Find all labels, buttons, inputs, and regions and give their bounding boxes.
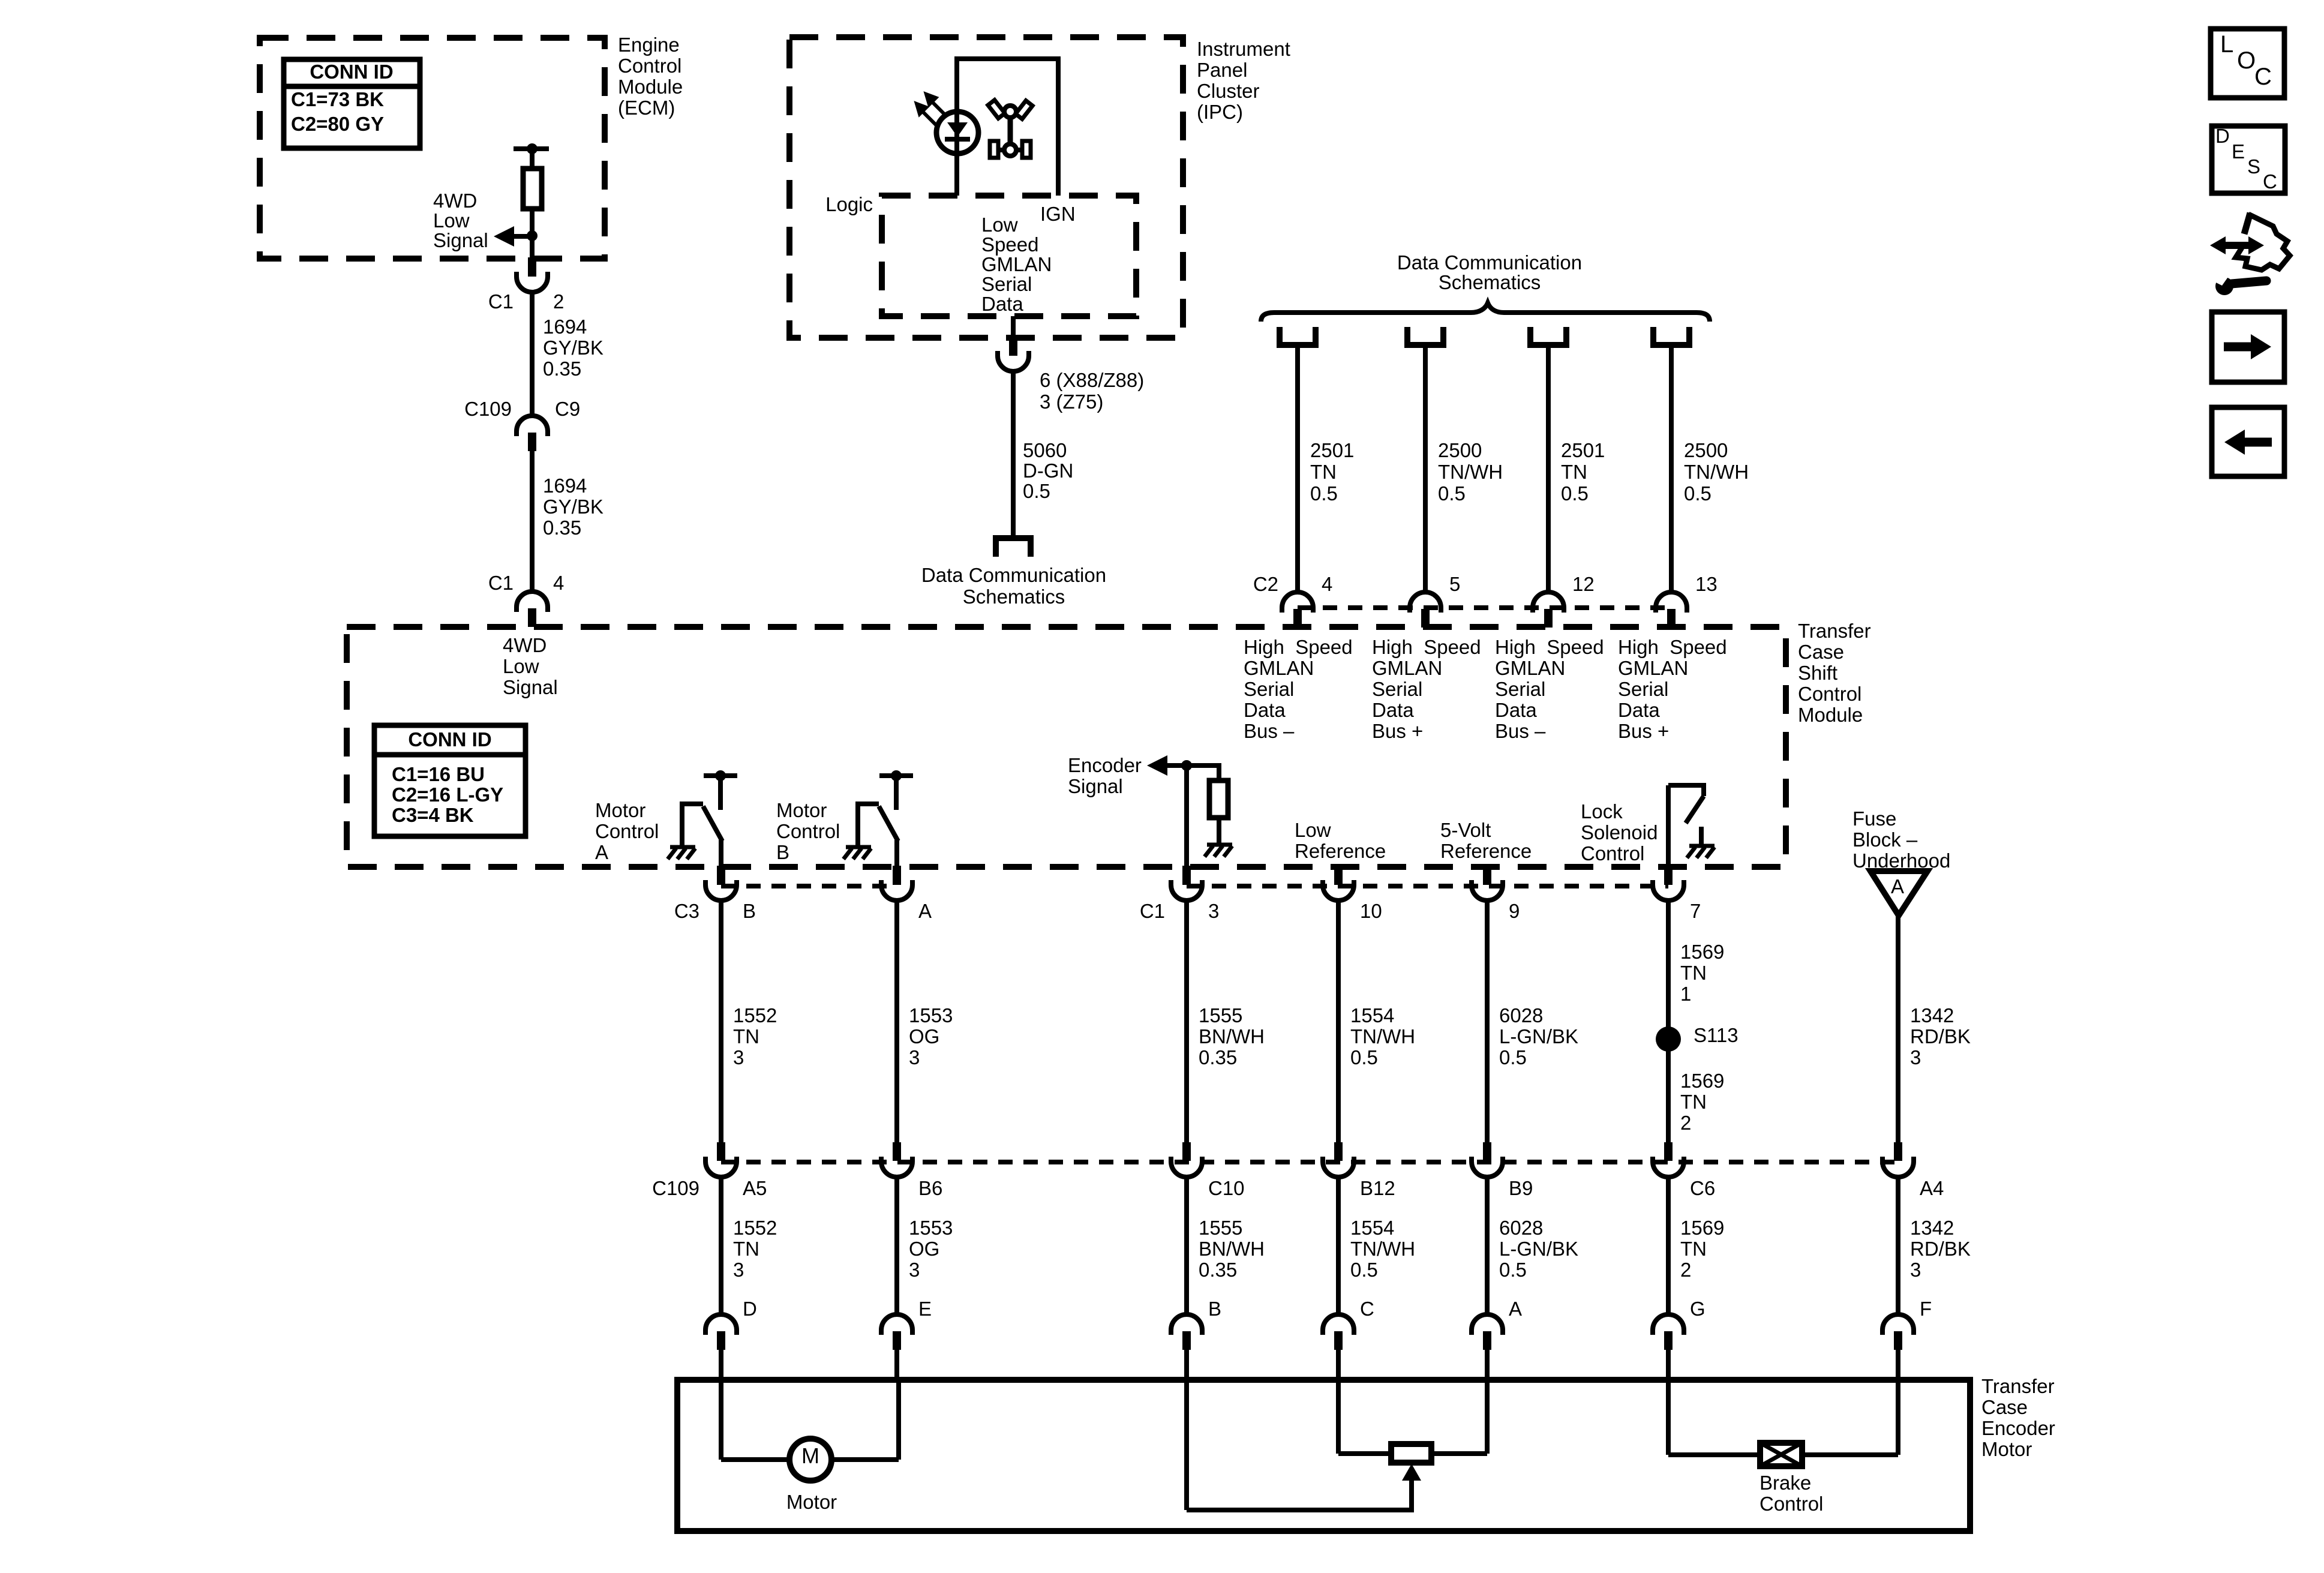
wire B to wiper — [1184, 1380, 1189, 1510]
wire G to brake control — [1666, 1380, 1671, 1455]
wire 1554 TN/WH (TCSCM to C109) — [1336, 899, 1341, 1143]
svg-text:1342: 1342 — [1910, 1217, 1954, 1239]
connector pin A (encoder motor) — [1472, 1314, 1503, 1330]
svg-text:M: M — [801, 1443, 819, 1468]
svg-text:0.5: 0.5 — [1499, 1046, 1527, 1068]
wire 2501 TN (bus 3) — [1546, 348, 1551, 594]
svg-text:GMLAN: GMLAN — [981, 253, 1052, 275]
svg-text:Case: Case — [1798, 641, 1844, 663]
svg-text:0.35: 0.35 — [543, 517, 581, 539]
svg-text:High Speed: High Speed — [1618, 636, 1727, 658]
svg-text:5: 5 — [1449, 573, 1460, 595]
svg-text:2501: 2501 — [1561, 439, 1605, 461]
connector C1 pin 4 (TCSCM top) — [517, 592, 548, 607]
IPC internal circuit lines — [957, 59, 1058, 196]
wire 1694 GY/BK upper segment — [530, 291, 535, 418]
wire 1554 TN/WH (C109 to encoder motor) — [1336, 1176, 1341, 1316]
in-line connector C109 pin B6 — [893, 1142, 901, 1161]
wire 5060 D-GN — [1011, 370, 1016, 538]
svg-text:Serial: Serial — [1618, 678, 1668, 700]
in-line connector C109 pin C10 — [1182, 1142, 1191, 1161]
lock solenoid switch — [1666, 785, 1671, 869]
Encoder Signal arrow — [1147, 755, 1167, 776]
svg-text:GMLAN: GMLAN — [1372, 657, 1442, 679]
svg-text:Case: Case — [1981, 1396, 2028, 1418]
svg-text:C9: C9 — [555, 398, 580, 420]
connector C2 pin 4 — [1282, 592, 1313, 608]
svg-text:B12: B12 — [1360, 1177, 1395, 1199]
splice S113 — [1656, 1026, 1681, 1052]
svg-text:B: B — [776, 841, 789, 863]
svg-text:9: 9 — [1509, 900, 1520, 922]
svg-text:C1: C1 — [488, 572, 514, 594]
svg-text:TN/WH: TN/WH — [1350, 1025, 1415, 1047]
svg-text:Low: Low — [503, 655, 539, 677]
wire potentiometer to A — [1431, 1451, 1487, 1456]
junction dot on supply — [527, 143, 538, 154]
svg-text:0.5: 0.5 — [1684, 482, 1712, 505]
svg-text:3: 3 — [1910, 1259, 1921, 1281]
svg-text:3: 3 — [733, 1259, 744, 1281]
svg-text:C10: C10 — [1208, 1177, 1245, 1199]
wire 1552 TN (C109 to encoder motor) — [719, 1176, 723, 1316]
wire pin C into encoder box — [1336, 1350, 1341, 1381]
in-line connector C109 pin C9 — [517, 416, 548, 431]
ECM internal supply T-bar — [514, 146, 549, 151]
svg-text:CONN ID: CONN ID — [310, 61, 393, 83]
svg-text:1569: 1569 — [1680, 1217, 1724, 1239]
svg-text:TN: TN — [733, 1025, 759, 1047]
svg-text:B: B — [743, 900, 756, 922]
ground (encoder resistor) — [1205, 845, 1232, 857]
wire 1555 BN/WH (TCSCM to C109) — [1184, 899, 1189, 1143]
wiper arrow — [1402, 1464, 1421, 1481]
svg-text:Data: Data — [1244, 699, 1286, 721]
svg-text:Speed: Speed — [981, 233, 1038, 256]
wire pin A into encoder box — [1485, 1350, 1490, 1381]
wire supply to resistor — [530, 149, 535, 169]
Motor Control B switch — [879, 773, 913, 778]
ground (motor control A) — [668, 847, 695, 859]
svg-text:0.35: 0.35 — [543, 358, 581, 380]
svg-text:C109: C109 — [652, 1177, 699, 1199]
wire 1569 TN (C109 to encoder motor) — [1666, 1176, 1671, 1316]
svg-text:1554: 1554 — [1350, 1217, 1394, 1239]
svg-text:L-GN/BK: L-GN/BK — [1499, 1025, 1578, 1047]
svg-text:B6: B6 — [918, 1177, 942, 1199]
svg-text:Block –: Block – — [1852, 828, 1918, 851]
svg-text:GMLAN: GMLAN — [1244, 657, 1314, 679]
svg-text:A4: A4 — [1920, 1177, 1944, 1199]
in-line connector C109 pin B12 — [1334, 1142, 1343, 1161]
svg-text:3: 3 — [909, 1259, 920, 1281]
svg-text:OG: OG — [909, 1238, 939, 1260]
svg-text:Control: Control — [1759, 1493, 1823, 1515]
svg-text:1552: 1552 — [733, 1004, 777, 1026]
svg-text:Data Communication: Data Communication — [921, 564, 1106, 586]
connector pin G (encoder motor) — [1653, 1314, 1684, 1330]
svg-text:3 (Z75): 3 (Z75) — [1040, 391, 1103, 413]
Engine Control Module (ECM) dashed box — [260, 38, 605, 259]
svg-text:BN/WH: BN/WH — [1199, 1025, 1265, 1047]
svg-text:Control: Control — [595, 820, 659, 842]
svg-text:Bus –: Bus – — [1244, 720, 1295, 742]
svg-text:F: F — [1920, 1298, 1932, 1320]
svg-text:Signal: Signal — [1068, 775, 1123, 797]
svg-text:TN: TN — [1680, 1091, 1707, 1113]
wire 2500 TN/WH (bus 4) — [1669, 348, 1674, 594]
svg-text:G: G — [1690, 1298, 1706, 1320]
svg-text:TN: TN — [1561, 461, 1587, 483]
connector row dashed line C2 — [1298, 605, 1671, 610]
svg-text:Control: Control — [1798, 683, 1861, 705]
wire F to brake control — [1896, 1380, 1900, 1455]
svg-text:3: 3 — [733, 1046, 744, 1068]
svg-text:A: A — [918, 900, 932, 922]
svg-text:13: 13 — [1695, 573, 1718, 595]
svg-text:6 (X88/Z88): 6 (X88/Z88) — [1040, 369, 1144, 391]
svg-text:Serial: Serial — [1495, 678, 1545, 700]
connector pin F (encoder motor) — [1882, 1314, 1914, 1330]
svg-text:S113: S113 — [1694, 1024, 1739, 1046]
svg-text:0.5: 0.5 — [1310, 482, 1338, 505]
svg-text:Data: Data — [1618, 699, 1660, 721]
svg-text:L-GN/BK: L-GN/BK — [1499, 1238, 1578, 1260]
off-page bracket 1 (data comm) — [1280, 327, 1316, 345]
svg-text:Serial: Serial — [1372, 678, 1422, 700]
svg-text:C2=80 GY: C2=80 GY — [291, 113, 384, 135]
svg-text:C2: C2 — [1253, 573, 1278, 595]
svg-text:C3: C3 — [674, 900, 699, 922]
svg-text:D: D — [743, 1298, 757, 1320]
svg-text:Motor: Motor — [786, 1491, 837, 1513]
svg-text:BN/WH: BN/WH — [1199, 1238, 1265, 1260]
wire 6028 L-GN/BK (TCSCM to C109) — [1485, 899, 1490, 1143]
svg-text:Brake: Brake — [1759, 1472, 1811, 1494]
svg-text:2: 2 — [1680, 1259, 1691, 1281]
svg-text:Low: Low — [1295, 819, 1331, 841]
svg-text:1569: 1569 — [1680, 1070, 1724, 1092]
svg-text:Reference: Reference — [1440, 840, 1532, 862]
svg-text:C2=16 L-GY: C2=16 L-GY — [392, 784, 503, 806]
svg-text:1694: 1694 — [543, 475, 587, 497]
svg-text:Logic: Logic — [825, 193, 873, 215]
svg-text:2: 2 — [1680, 1112, 1691, 1134]
svg-text:3: 3 — [1208, 900, 1219, 922]
svg-text:Motor: Motor — [776, 799, 827, 821]
svg-text:IGN: IGN — [1040, 203, 1076, 225]
svg-text:1553: 1553 — [909, 1004, 953, 1026]
svg-text:B9: B9 — [1509, 1177, 1533, 1199]
wire pin F into encoder box — [1896, 1350, 1900, 1381]
svg-text:Schematics: Schematics — [963, 586, 1065, 608]
svg-text:Control: Control — [776, 820, 840, 842]
svg-text:Bus –: Bus – — [1495, 720, 1546, 742]
svg-text:Signal: Signal — [433, 229, 488, 251]
connector C2 pin 5 — [1410, 592, 1441, 608]
svg-text:TN/WH: TN/WH — [1438, 461, 1503, 483]
svg-text:D-GN: D-GN — [1023, 460, 1073, 482]
svg-text:Engine: Engine — [618, 34, 680, 56]
svg-text:2500: 2500 — [1438, 439, 1482, 461]
connector C3 pin B (TCSCM bottom) — [717, 866, 725, 885]
svg-text:C6: C6 — [1690, 1177, 1715, 1199]
encoder node dot — [1181, 760, 1192, 771]
svg-text:CONN ID: CONN ID — [408, 728, 491, 751]
connector pin C (encoder motor) — [1323, 1314, 1354, 1330]
connector row dashed line C109 — [721, 1160, 1898, 1164]
svg-text:1342: 1342 — [1910, 1004, 1954, 1026]
connector C2 pin 12 — [1533, 592, 1564, 608]
svg-text:A: A — [595, 841, 608, 863]
wire pin B into encoder box — [1184, 1350, 1189, 1381]
svg-text:Bus +: Bus + — [1618, 720, 1669, 742]
svg-text:Data: Data — [1495, 699, 1537, 721]
brace — [1261, 303, 1710, 322]
motor M — [789, 1439, 831, 1481]
resistor (encoder) — [1209, 781, 1228, 818]
svg-text:5060: 5060 — [1023, 439, 1067, 461]
svg-text:C: C — [1360, 1298, 1374, 1320]
svg-text:C: C — [2263, 170, 2277, 193]
wire 1553 OG (TCSCM to C109) — [894, 899, 899, 1143]
svg-text:GMLAN: GMLAN — [1495, 657, 1565, 679]
wire 6028 L-GN/BK (C109 to encoder motor) — [1485, 1176, 1490, 1316]
svg-text:A: A — [1891, 875, 1904, 897]
Logic dashed box — [882, 196, 1136, 316]
wire resistor to signal node — [530, 209, 535, 261]
svg-text:2501: 2501 — [1310, 439, 1354, 461]
svg-text:TN: TN — [733, 1238, 759, 1260]
back arrow icon — [2212, 407, 2284, 476]
ECM CONN ID table — [284, 59, 420, 148]
wire IPC logic to connector — [1011, 316, 1016, 338]
DESC icon — [2212, 126, 2285, 193]
svg-text:1553: 1553 — [909, 1217, 953, 1239]
svg-text:GY/BK: GY/BK — [543, 496, 603, 518]
svg-text:1555: 1555 — [1199, 1217, 1242, 1239]
svg-text:RD/BK: RD/BK — [1910, 1025, 1971, 1047]
svg-text:1694: 1694 — [543, 316, 587, 338]
LOC icon — [2211, 29, 2284, 98]
encoder pull-up corner wire — [1217, 763, 1221, 781]
svg-text:Module: Module — [618, 76, 683, 98]
connector pin D (encoder motor) — [705, 1314, 737, 1330]
svg-text:Signal: Signal — [503, 676, 558, 698]
svg-text:High Speed: High Speed — [1495, 636, 1604, 658]
svg-text:Low: Low — [981, 214, 1018, 236]
Transfer Case Encoder Motor box — [677, 1380, 1970, 1531]
in-line connector C109 pin C6 — [1664, 1142, 1673, 1161]
svg-text:1554: 1554 — [1350, 1004, 1394, 1026]
svg-text:OG: OG — [909, 1025, 939, 1047]
svg-text:Serial: Serial — [1244, 678, 1294, 700]
svg-text:2500: 2500 — [1684, 439, 1728, 461]
Transfer Case Shift Control Module dashed box — [347, 627, 1786, 867]
svg-text:0.35: 0.35 — [1199, 1259, 1237, 1281]
off-page bracket 2 (data comm) — [1407, 327, 1443, 345]
wire 1342 RD/BK (C109 to encoder motor) — [1896, 1176, 1900, 1316]
svg-text:O: O — [2237, 47, 2256, 74]
svg-text:1555: 1555 — [1199, 1004, 1242, 1026]
svg-text:TN: TN — [1680, 1238, 1707, 1260]
svg-text:E: E — [2232, 140, 2245, 163]
connector row dashed line C1 — [1187, 884, 1668, 888]
svg-text:3: 3 — [1910, 1046, 1921, 1068]
svg-text:C109: C109 — [464, 398, 512, 420]
svg-text:TN: TN — [1310, 461, 1337, 483]
wire 2501 TN (bus 1) — [1295, 348, 1300, 594]
svg-text:Solenoid: Solenoid — [1581, 821, 1658, 843]
svg-text:C1: C1 — [488, 290, 514, 313]
wire pin E into encoder box — [894, 1350, 899, 1381]
svg-text:Control: Control — [1581, 842, 1644, 864]
ground (lock solenoid) — [1687, 846, 1715, 858]
wire D to motor — [719, 1380, 723, 1460]
svg-text:TN: TN — [1680, 962, 1707, 984]
svg-text:B: B — [1208, 1298, 1221, 1320]
svg-text:Encoder: Encoder — [1068, 754, 1142, 776]
svg-text:Fuse: Fuse — [1852, 807, 1896, 830]
svg-text:Shift: Shift — [1798, 662, 1837, 684]
diagnostic icon (arrows, outline, wrench) — [2236, 213, 2290, 270]
svg-text:1552: 1552 — [733, 1217, 777, 1239]
svg-text:3: 3 — [909, 1046, 920, 1068]
svg-text:0.5: 0.5 — [1350, 1259, 1378, 1281]
svg-text:6028: 6028 — [1499, 1004, 1543, 1026]
off-page bracket (to data comm schematics) — [996, 538, 1031, 557]
svg-text:0.5: 0.5 — [1438, 482, 1466, 505]
wire motor to E — [830, 1457, 899, 1462]
svg-text:A: A — [1509, 1298, 1522, 1320]
LED diode symbol — [947, 122, 968, 137]
connector C1 pin 10 (TCSCM bottom) — [1334, 866, 1343, 885]
encoder potentiometer — [1391, 1444, 1431, 1463]
wire 1552 TN (TCSCM to C109) — [719, 899, 723, 1143]
wire 1555 BN/WH (C109 to encoder motor) — [1184, 1176, 1189, 1316]
4WD Low Signal arrow — [494, 226, 514, 247]
svg-text:Data Communication: Data Communication — [1397, 251, 1582, 274]
svg-text:E: E — [918, 1298, 932, 1320]
IPC bottom connector — [1009, 337, 1017, 356]
in-line connector C109 pin A4 — [1894, 1142, 1902, 1161]
svg-text:GMLAN: GMLAN — [1618, 657, 1688, 679]
svg-text:4: 4 — [1322, 573, 1332, 595]
svg-text:High Speed: High Speed — [1244, 636, 1353, 658]
svg-text:C1=16 BU: C1=16 BU — [392, 763, 485, 785]
connector C1 pin 2 (ECM) — [528, 257, 536, 277]
svg-text:C1: C1 — [1140, 900, 1165, 922]
svg-text:GY/BK: GY/BK — [543, 337, 603, 359]
wire pin G into encoder box — [1666, 1350, 1671, 1381]
svg-text:High Speed: High Speed — [1372, 636, 1481, 658]
connector C3 pin A (TCSCM bottom) — [893, 866, 901, 885]
svg-text:2: 2 — [553, 290, 564, 313]
svg-text:Panel: Panel — [1197, 59, 1247, 81]
off-page bracket 4 (data comm) — [1653, 327, 1689, 345]
svg-text:4WD: 4WD — [503, 634, 547, 656]
off-page bracket 3 (data comm) — [1530, 327, 1566, 345]
svg-text:12: 12 — [1572, 573, 1595, 595]
svg-text:Schematics: Schematics — [1439, 271, 1541, 293]
svg-text:4WD: 4WD — [433, 190, 477, 212]
wire C to potentiometer — [1336, 1380, 1341, 1454]
svg-text:Low: Low — [433, 209, 470, 232]
Motor Control A switch — [704, 773, 737, 778]
svg-text:TN/WH: TN/WH — [1684, 461, 1749, 483]
svg-text:Lock: Lock — [1581, 800, 1623, 822]
LED light rays — [917, 94, 947, 127]
svg-text:7: 7 — [1690, 900, 1701, 922]
svg-text:Serial: Serial — [981, 273, 1032, 295]
svg-text:(IPC): (IPC) — [1197, 101, 1243, 123]
svg-text:RD/BK: RD/BK — [1910, 1238, 1971, 1260]
resistor in ECM (4WD low pull-up) — [523, 169, 542, 209]
svg-text:Control: Control — [618, 55, 681, 77]
svg-text:Cluster: Cluster — [1197, 80, 1260, 102]
next arrow icon — [2212, 312, 2284, 382]
svg-text:S: S — [2247, 155, 2260, 178]
svg-text:(ECM): (ECM) — [618, 97, 675, 119]
wire resistor to ground — [1217, 818, 1221, 845]
svg-text:0.5: 0.5 — [1350, 1046, 1378, 1068]
wire 1694 GY/BK lower segment — [530, 451, 535, 593]
svg-text:4: 4 — [553, 572, 564, 594]
fuse block triangle A — [1870, 871, 1927, 915]
indicator LED circle — [936, 112, 978, 154]
connector row dashed line C3 — [721, 884, 897, 888]
svg-text:A5: A5 — [743, 1177, 767, 1199]
svg-text:6028: 6028 — [1499, 1217, 1543, 1239]
wire 1553 OG (C109 to encoder motor) — [894, 1176, 899, 1316]
connector pin E (encoder motor) — [881, 1314, 912, 1330]
svg-text:1: 1 — [1680, 983, 1691, 1005]
svg-text:5-Volt: 5-Volt — [1440, 819, 1491, 841]
4WD drivetrain icon — [988, 100, 1032, 158]
svg-text:Motor: Motor — [595, 799, 645, 821]
in-line connector C109 pin A5 — [717, 1142, 725, 1161]
svg-text:1569: 1569 — [1680, 941, 1724, 963]
svg-text:C1=73 BK: C1=73 BK — [291, 88, 384, 110]
ground (motor control B) — [843, 847, 871, 859]
svg-text:Bus +: Bus + — [1372, 720, 1423, 742]
svg-text:L: L — [2220, 31, 2233, 58]
Instrument Panel Cluster (IPC) dashed box — [789, 37, 1183, 338]
wire 1569 TN segment 1 — [1666, 899, 1671, 1143]
svg-text:Instrument: Instrument — [1197, 38, 1290, 60]
svg-text:Transfer: Transfer — [1981, 1375, 2055, 1397]
connector C1 pin 7 (TCSCM bottom) — [1664, 866, 1673, 885]
svg-text:0.5: 0.5 — [1561, 482, 1589, 505]
connector C1 pin 9 (TCSCM bottom) — [1483, 866, 1491, 885]
wire 1342 RD/BK (fuse to C109) — [1896, 915, 1900, 1143]
svg-text:Motor: Motor — [1981, 1438, 2032, 1460]
svg-text:10: 10 — [1360, 900, 1382, 922]
connector pin B (encoder motor) — [1171, 1314, 1202, 1330]
svg-text:Data: Data — [1372, 699, 1414, 721]
svg-text:Data: Data — [981, 293, 1023, 315]
node dot 4WD low signal — [527, 230, 538, 241]
wire pin D into encoder box — [719, 1350, 723, 1381]
svg-text:Encoder: Encoder — [1981, 1417, 2055, 1439]
connector C1 pin 3 (TCSCM bottom) — [1182, 866, 1191, 885]
TCSCM CONN ID table — [374, 725, 526, 836]
brake control element — [1760, 1443, 1802, 1466]
wire 2500 TN/WH (bus 2) — [1423, 348, 1428, 594]
svg-text:D: D — [2215, 125, 2230, 147]
wire encoder signal to pin 3 — [1184, 766, 1189, 869]
svg-text:C: C — [2254, 64, 2272, 90]
